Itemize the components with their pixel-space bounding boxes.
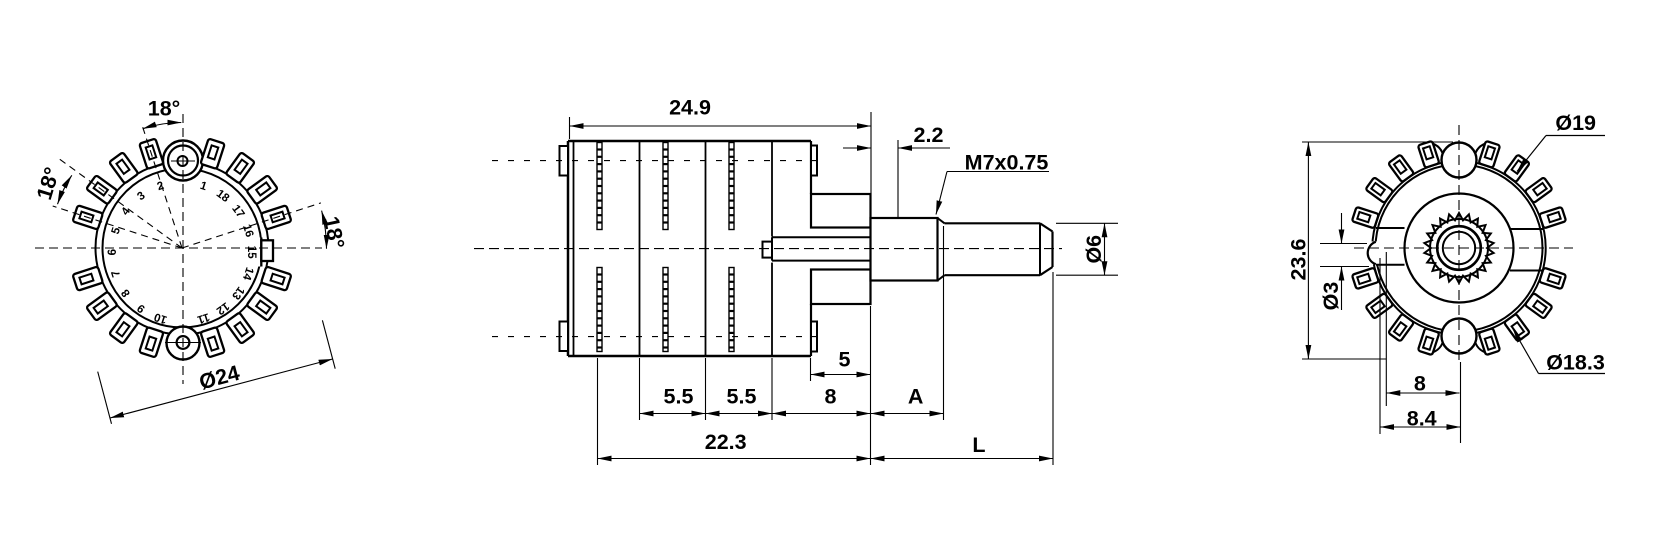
svg-text:5: 5 xyxy=(839,348,851,372)
svg-text:18: 18 xyxy=(214,188,232,206)
side view: wafer divider 1 xyxy=(639,141,641,356)
dimension 5 xyxy=(811,348,871,382)
svg-text:17: 17 xyxy=(229,203,246,220)
front/rear lug L306 xyxy=(226,312,255,343)
rear view: knurled gear ring xyxy=(1424,213,1493,283)
dimension 8 rear xyxy=(1386,252,1459,406)
front/rear lug L216 xyxy=(86,292,117,321)
dimension D3 xyxy=(1319,213,1369,310)
side view: mounting flange bottom xyxy=(811,270,871,305)
side view: inner left wall line xyxy=(573,141,575,356)
rear view: rotor circle xyxy=(1405,194,1514,303)
dimension L xyxy=(871,433,1054,459)
extension lines below body xyxy=(598,226,1054,465)
front/rear lug R342 xyxy=(1539,268,1566,290)
front/rear lug L18 xyxy=(261,205,291,229)
front view: vertical centerline xyxy=(182,114,184,384)
side view: inner shaft xyxy=(763,237,871,260)
dimension 8 xyxy=(772,385,871,414)
side view: body outline xyxy=(568,141,811,356)
dimension 23.6 xyxy=(1287,142,1454,359)
svg-text:18°: 18° xyxy=(148,97,181,121)
side view: left tab top xyxy=(560,146,569,176)
side view: terminal bar column x=665.5 top xyxy=(663,143,668,230)
front/rear lug L162 xyxy=(73,205,103,229)
side view: terminal bar column x=731.5 bottom xyxy=(729,268,734,352)
svg-text:24.9: 24.9 xyxy=(669,96,711,120)
svg-text:1: 1 xyxy=(198,180,208,194)
front/rear lug L234 xyxy=(109,312,138,343)
front/rear lug R324 xyxy=(1525,293,1553,319)
side view: terminal bar column x=665.5 bottom xyxy=(663,268,668,352)
front/rear lug R108 xyxy=(1418,141,1440,168)
front/rear lug R72 xyxy=(1479,141,1501,168)
front/rear lug R234 xyxy=(1388,314,1414,342)
rear view: ear fillet arcs xyxy=(1433,144,1486,353)
front/rear lug L126 xyxy=(109,152,138,183)
rear view: outer rim circle D19 xyxy=(1372,161,1545,334)
svg-text:8.4: 8.4 xyxy=(1407,406,1437,430)
svg-text:5.5: 5.5 xyxy=(664,385,694,409)
side view: wafer divider 3 (split by shaft) xyxy=(771,141,773,356)
rear view: index notch D3 xyxy=(1364,242,1379,265)
dimension D6 xyxy=(1056,223,1118,275)
side view: right tab bottom xyxy=(811,322,817,352)
front view: index flat and lug 15 xyxy=(250,238,273,267)
front/rear lug L144 xyxy=(86,175,117,204)
side view: lower centerline xyxy=(492,336,824,338)
side view: right tab top xyxy=(811,146,817,176)
svg-text:Ø3: Ø3 xyxy=(1319,282,1343,311)
front/rear lug L72 xyxy=(200,139,224,169)
side view: threaded bushing M7 xyxy=(871,218,945,281)
svg-text:2: 2 xyxy=(156,180,166,193)
front/rear lug R18 xyxy=(1539,207,1566,229)
front/rear lug L324 xyxy=(246,292,277,321)
front/rear lug L252 xyxy=(139,327,163,357)
front view: outer rim circle xyxy=(96,162,269,335)
label D19 with leader xyxy=(1517,111,1605,172)
svg-text:A: A xyxy=(908,385,924,409)
side view: shaft D6 xyxy=(945,223,1053,275)
rear view: top mounting ear xyxy=(1442,143,1477,178)
dimension 22.3 xyxy=(598,430,871,459)
dimension 18deg right arc xyxy=(319,211,349,251)
svg-text:14: 14 xyxy=(240,266,256,282)
front/rear lug L342 xyxy=(261,266,291,290)
side view: main centerline xyxy=(474,248,1062,250)
dimension 8.4 rear xyxy=(1380,258,1461,443)
svg-text:9: 9 xyxy=(135,301,147,314)
rear view: horizontal centerline xyxy=(1354,247,1573,249)
side view: terminal bar column x=599.5 top xyxy=(597,143,602,230)
svg-text:23.6: 23.6 xyxy=(1287,239,1311,281)
svg-text:Ø19: Ø19 xyxy=(1555,111,1596,135)
dimension 5.5 first xyxy=(640,385,706,414)
side view: wafer divider 2 xyxy=(705,141,707,356)
front/rear lug R126 xyxy=(1388,154,1414,182)
front/rear lug R198 xyxy=(1352,268,1379,290)
front/rear lug R144 xyxy=(1365,177,1393,203)
svg-text:Ø18.3: Ø18.3 xyxy=(1546,351,1605,375)
svg-text:18°: 18° xyxy=(319,214,349,251)
svg-text:11: 11 xyxy=(195,310,211,325)
dimension A xyxy=(871,385,944,414)
rear view: channel at 180deg xyxy=(1376,228,1405,265)
rear view: shaft bore outer xyxy=(1437,226,1481,270)
svg-text:3: 3 xyxy=(135,190,147,203)
rear view: inner rim circle D18.3 xyxy=(1376,165,1543,332)
front view: horizontal centerline xyxy=(35,247,322,249)
side view: upper centerline xyxy=(492,160,824,162)
rear view: bottom mounting ear xyxy=(1442,319,1477,354)
front view: radial centerline 18deg xyxy=(182,203,321,248)
front view: radial centerline 162deg xyxy=(53,206,182,248)
svg-text:Ø24: Ø24 xyxy=(197,361,242,395)
front/rear lug R216 xyxy=(1365,293,1393,319)
front view: top mounting ear xyxy=(163,141,203,181)
rear view: shaft bore inner xyxy=(1443,232,1475,264)
front/rear lug R306 xyxy=(1504,314,1530,342)
svg-text:22.3: 22.3 xyxy=(705,430,747,454)
svg-text:8: 8 xyxy=(825,385,837,409)
front view: radial centerline 144deg xyxy=(59,159,182,248)
svg-text:7: 7 xyxy=(110,269,123,279)
front/rear lug R288 xyxy=(1479,328,1501,355)
svg-text:6: 6 xyxy=(107,249,119,255)
front/rear lug L36 xyxy=(246,175,277,204)
side view: left tab bottom xyxy=(560,322,569,352)
svg-text:8: 8 xyxy=(1414,372,1426,396)
dimension 18deg top arc xyxy=(143,97,182,129)
svg-text:Ø6: Ø6 xyxy=(1082,235,1106,264)
dimension D24 diagonal xyxy=(98,320,336,424)
label M7x0.75 with leader xyxy=(936,151,1049,215)
dimension 24.9 xyxy=(570,96,872,194)
svg-text:5: 5 xyxy=(110,225,124,235)
dimension 18deg left arc xyxy=(32,164,72,204)
front/rear lug R162 xyxy=(1352,207,1379,229)
front/rear lug L108 xyxy=(139,139,163,169)
front/rear lug L54 xyxy=(226,152,255,183)
rear view: vertical centerline xyxy=(1458,125,1460,362)
side view: terminal bar column x=731.5 top xyxy=(729,143,734,230)
side view: terminal bar column x=599.5 bottom xyxy=(597,268,602,352)
svg-text:M7x0.75: M7x0.75 xyxy=(965,151,1049,175)
dimension 5.5 second xyxy=(706,385,773,414)
svg-text:8: 8 xyxy=(119,286,133,299)
front/rear lug R36 xyxy=(1525,177,1553,203)
front/rear lug L198 xyxy=(73,266,103,290)
dimension 2.2 xyxy=(843,123,950,218)
front view: inner rim circle xyxy=(103,169,262,328)
side view: mounting flange top xyxy=(811,194,871,228)
front view: position numbers 1-18 xyxy=(107,180,257,326)
front view: radial centerline 108deg xyxy=(142,125,182,248)
front/rear lug L288 xyxy=(200,327,224,357)
svg-text:5.5: 5.5 xyxy=(727,385,757,409)
front view: bottom mounting ear xyxy=(165,327,201,360)
svg-text:L: L xyxy=(972,433,985,457)
rear view: channel at 0deg xyxy=(1510,229,1543,271)
svg-text:12: 12 xyxy=(214,299,231,316)
front/rear lug R252 xyxy=(1418,328,1440,355)
svg-text:18°: 18° xyxy=(32,164,64,202)
svg-text:10: 10 xyxy=(153,310,169,325)
label D18.3 with leader xyxy=(1513,329,1605,375)
svg-text:2.2: 2.2 xyxy=(914,123,944,147)
front/rear lug R54 xyxy=(1504,154,1530,182)
